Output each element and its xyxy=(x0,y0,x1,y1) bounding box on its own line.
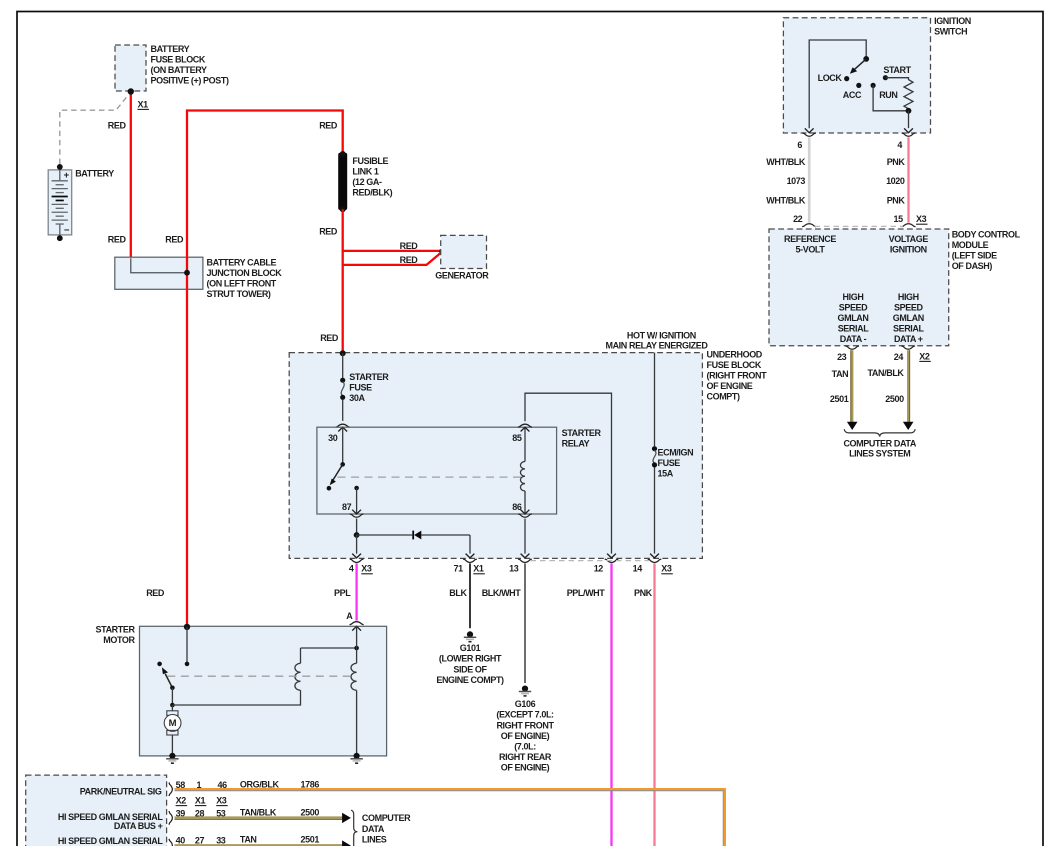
fuse block pin 71 arrow xyxy=(466,554,475,558)
BCM pin 15 connector cup xyxy=(902,224,916,227)
svg-text:12: 12 xyxy=(594,564,604,574)
svg-text:HIGH: HIGH xyxy=(898,292,919,302)
relay pin 86 arrow xyxy=(521,510,530,514)
fuse block pin 14 connector cup xyxy=(648,559,662,562)
svg-text:PNK: PNK xyxy=(887,195,906,205)
wire PPL pin 4 to starter motor A xyxy=(355,563,357,620)
svg-text:LINK 1: LINK 1 xyxy=(352,166,378,176)
wire BLK/WHT pin 13 to G106 xyxy=(524,563,526,683)
node X1 terminal dot on battery fuse block xyxy=(128,88,134,94)
svg-text:ACC: ACC xyxy=(843,90,862,100)
wire TAN hi speed GMLAN data bus - xyxy=(175,844,343,846)
svg-text:1786: 1786 xyxy=(301,779,320,789)
svg-text:14: 14 xyxy=(633,564,643,574)
svg-text:HOT W/ IGNITION: HOT W/ IGNITION xyxy=(627,331,696,341)
junction block internal node dot xyxy=(184,270,190,276)
svg-text:PNK: PNK xyxy=(634,588,653,598)
svg-text:ENGINE COMPT): ENGINE COMPT) xyxy=(436,675,504,685)
starter motor connector A cup xyxy=(350,622,364,625)
svg-text:1020: 1020 xyxy=(886,176,905,186)
svg-text:WHT/BLK: WHT/BLK xyxy=(766,195,806,205)
fuse block pin 13 arrow xyxy=(521,554,530,558)
svg-text:DATA: DATA xyxy=(362,824,385,834)
wire PNK pin 14 down off page xyxy=(653,563,655,846)
relay switch common wire xyxy=(342,427,344,464)
ground G101 xyxy=(467,631,473,637)
PCM pin 58 connector cup xyxy=(169,783,172,797)
fusible link top dot xyxy=(340,151,346,157)
svg-text:GENERATOR: GENERATOR xyxy=(435,270,489,280)
svg-text:RED: RED xyxy=(165,235,184,245)
battery negative terminal dot xyxy=(57,235,63,241)
svg-text:RED: RED xyxy=(319,120,338,130)
wire RED branch to generator (lower) xyxy=(343,252,442,265)
BCM top connector group dashed line xyxy=(815,225,904,227)
TAN/BLK bus arrowhead xyxy=(342,813,351,823)
BCM pin 24 connector cup xyxy=(901,346,915,349)
relay switch arm (open, with arrow) xyxy=(333,464,343,480)
starter solenoid arm pivot dot xyxy=(170,686,175,691)
svg-text:COMPUTER: COMPUTER xyxy=(362,813,411,823)
starter motor ground (right) xyxy=(354,753,360,759)
svg-text:GMLAN: GMLAN xyxy=(893,313,924,323)
svg-text:SWITCH: SWITCH xyxy=(934,27,967,37)
wire hot feed to ECM/IGN fuse xyxy=(654,353,656,447)
svg-text:X3: X3 xyxy=(661,564,672,574)
ground G106 xyxy=(522,686,528,692)
svg-text:MOTOR: MOTOR xyxy=(103,635,135,645)
ignition START contact dot xyxy=(883,75,888,80)
relay pin 85 connector cup xyxy=(518,424,532,427)
battery fuse block (dashed box) xyxy=(115,45,146,91)
wire node to diode to pin 71 drop xyxy=(357,534,413,536)
ignition pin 4 connector cup xyxy=(902,133,916,136)
fuse block pin 12 arrow xyxy=(607,554,616,558)
ignition RUN contact dot xyxy=(871,83,876,88)
svg-text:RED: RED xyxy=(108,235,127,245)
relay pin 85 arrow xyxy=(521,427,530,431)
wire BLK pin 71 to G101 xyxy=(469,563,471,628)
svg-text:33: 33 xyxy=(216,835,226,845)
svg-text:RIGHT FRONT: RIGHT FRONT xyxy=(496,720,554,730)
svg-text:(LOWER RIGHT: (LOWER RIGHT xyxy=(439,654,502,664)
ignition pin 4 arrow xyxy=(904,128,913,132)
relay pin 87 arrow xyxy=(352,510,361,514)
svg-text:WHT/BLK: WHT/BLK xyxy=(766,157,806,167)
relay switch pivot dot xyxy=(340,462,345,467)
svg-text:13: 13 xyxy=(509,564,519,574)
svg-text:RELAY: RELAY xyxy=(562,438,590,448)
svg-text:(RIGHT FRONT: (RIGHT FRONT xyxy=(707,371,768,381)
wire motor node to pull-in winding xyxy=(172,690,300,705)
svg-text:24: 24 xyxy=(894,352,904,362)
node dot diode branch xyxy=(354,532,360,538)
svg-text:TAN: TAN xyxy=(832,369,849,379)
battery B1 body xyxy=(48,170,71,235)
node dot red feed at fuse block top edge xyxy=(340,350,346,356)
svg-text:27: 27 xyxy=(195,835,205,845)
svg-text:STARTER: STARTER xyxy=(562,428,602,438)
svg-text:REFERENCE: REFERENCE xyxy=(784,234,836,244)
svg-text:−: − xyxy=(64,225,70,236)
starter relay box xyxy=(317,427,557,514)
svg-text:RED/BLK): RED/BLK) xyxy=(352,187,392,197)
svg-text:TAN/BLK: TAN/BLK xyxy=(240,807,277,817)
svg-text:RED: RED xyxy=(400,255,419,265)
svg-text:RED: RED xyxy=(146,588,165,598)
svg-text:OF ENGINE: OF ENGINE xyxy=(707,381,753,391)
ECM/IGN fuse 15A element xyxy=(652,446,657,451)
ignition switch (dashed box) xyxy=(783,18,930,133)
svg-text:ECM/IGN: ECM/IGN xyxy=(658,448,694,458)
starter solenoid switch arm (with arrow) xyxy=(165,674,172,688)
svg-text:2500: 2500 xyxy=(301,807,320,817)
svg-text:X3: X3 xyxy=(361,564,372,574)
svg-text:ORG/BLK: ORG/BLK xyxy=(240,779,280,789)
fuse block pin 71 connector cup xyxy=(463,559,477,562)
starter motor box xyxy=(140,626,387,756)
relay switch contact dot 87 xyxy=(354,486,359,491)
svg-text:BATTERY: BATTERY xyxy=(75,169,114,179)
svg-text:SERIAL: SERIAL xyxy=(893,323,925,333)
svg-text:22: 22 xyxy=(793,214,803,224)
svg-text:(LEFT SIDE: (LEFT SIDE xyxy=(952,251,997,261)
wire pull-in winding to A terminal wire xyxy=(301,647,357,649)
svg-text:(ON LEFT FRONT: (ON LEFT FRONT xyxy=(207,279,277,289)
svg-text:4: 4 xyxy=(349,564,354,574)
svg-text:DATA +: DATA + xyxy=(894,334,923,344)
svg-text:X3: X3 xyxy=(216,796,227,806)
svg-text:COMPUTER DATA: COMPUTER DATA xyxy=(843,438,916,448)
svg-text:LINES: LINES xyxy=(362,835,387,845)
svg-text:HI SPEED GMLAN SERIAL: HI SPEED GMLAN SERIAL xyxy=(58,836,164,846)
svg-text:JUNCTION BLOCK: JUNCTION BLOCK xyxy=(207,268,283,278)
svg-text:86: 86 xyxy=(512,502,522,512)
svg-text:RUN: RUN xyxy=(879,90,897,100)
svg-text:+: + xyxy=(64,170,70,181)
svg-text:(EXCEPT 7.0L:: (EXCEPT 7.0L: xyxy=(496,710,554,720)
wire WHT/BLK ignition pin 6 to BCM pin 22 xyxy=(808,137,811,222)
wire node down to pin 4 xyxy=(356,535,358,554)
TAN/BLK wire arrowhead xyxy=(903,422,914,430)
svg-text:PPL: PPL xyxy=(334,588,351,598)
svg-text:FUSE: FUSE xyxy=(349,383,372,393)
starter hold-in winding coil xyxy=(351,663,357,690)
PCM pin 40 connector cup xyxy=(169,839,172,846)
svg-text:STARTER: STARTER xyxy=(96,625,136,635)
wire RED fusible link to underhood fuse block xyxy=(342,209,344,352)
svg-text:IGNITION: IGNITION xyxy=(934,16,971,26)
svg-text:SIDE OF: SIDE OF xyxy=(453,664,487,674)
svg-text:15A: 15A xyxy=(658,469,674,479)
ignition switch feed dot xyxy=(863,56,869,62)
svg-text:RED: RED xyxy=(319,226,338,236)
ignition pin 6 connector cup xyxy=(802,133,816,136)
svg-text:30A: 30A xyxy=(349,393,365,403)
wire starter fuse to relay pin 30 xyxy=(342,400,344,421)
battery cell plates xyxy=(52,180,68,182)
svg-text:LOCK: LOCK xyxy=(818,73,843,83)
svg-text:X2: X2 xyxy=(919,351,930,361)
svg-text:(7.0L:: (7.0L: xyxy=(514,742,536,752)
svg-text:BLK/WHT: BLK/WHT xyxy=(482,588,522,598)
connector group dashed line pins 13-12-14 xyxy=(531,560,650,562)
ignition resistor bottom dot xyxy=(906,108,912,114)
svg-text:RED: RED xyxy=(108,120,127,130)
wire TAN/BLK hi speed GMLAN data bus + xyxy=(175,816,343,818)
svg-text:TAN: TAN xyxy=(240,834,257,844)
svg-text:RIGHT REAR: RIGHT REAR xyxy=(499,752,552,762)
fuse block pin 4 arrow xyxy=(352,554,361,558)
svg-text:(12 GA-: (12 GA- xyxy=(352,177,382,187)
svg-text:COMPT): COMPT) xyxy=(707,392,740,402)
wire ORG/BLK park/neutral signal xyxy=(175,789,725,846)
svg-text:A: A xyxy=(346,611,353,621)
wire RED junction block to fusible link (up and across) xyxy=(187,111,343,273)
wire A terminal down through hold-in winding to ground xyxy=(356,626,358,663)
wire TAN BCM 23 to data lines xyxy=(851,350,853,422)
wire relay 86 down to pin 13 xyxy=(524,519,526,554)
svg-text:BATTERY CABLE: BATTERY CABLE xyxy=(207,258,277,268)
starter fuse 30A element xyxy=(342,353,344,378)
wire resistor node down to pin 4 xyxy=(908,111,910,128)
svg-text:VOLTAGE: VOLTAGE xyxy=(889,234,929,244)
relay pin 86 connector cup xyxy=(518,514,532,517)
starter solenoid fixed contact dot xyxy=(157,662,162,667)
TAN wire arrowhead xyxy=(847,422,858,430)
wire PPL/WHT pin 12 down off page xyxy=(610,563,612,846)
svg-text:MODULE: MODULE xyxy=(952,240,989,250)
starter motor dashed actuation link xyxy=(167,675,350,677)
svg-text:M: M xyxy=(169,718,177,729)
junction block internal bus xyxy=(131,258,187,273)
generator terminal dot xyxy=(439,248,445,254)
starter motor A arrow xyxy=(352,626,361,630)
svg-text:STARTER: STARTER xyxy=(349,372,389,382)
svg-text:2501: 2501 xyxy=(301,834,320,844)
fusible link 1 element xyxy=(338,153,347,210)
svg-text:SPEED: SPEED xyxy=(839,302,868,312)
svg-text:G101: G101 xyxy=(460,643,481,653)
starter motor feed stub dot xyxy=(185,662,190,667)
ignition ACC contact dot xyxy=(856,83,861,88)
svg-text:DATA -: DATA - xyxy=(840,334,867,344)
svg-text:UNDERHOOD: UNDERHOOD xyxy=(707,350,763,360)
svg-text:71: 71 xyxy=(453,564,463,574)
svg-text:RED: RED xyxy=(320,333,339,343)
ignition switch feed wire xyxy=(809,40,866,128)
generator (dashed box) xyxy=(441,235,487,268)
wire RED branch to generator (upper) xyxy=(343,250,442,252)
svg-text:X3: X3 xyxy=(916,214,927,224)
relay pin 87 connector cup xyxy=(350,514,364,517)
starter pull-in winding coil xyxy=(295,663,301,690)
svg-text:SERIAL: SERIAL xyxy=(838,323,870,333)
svg-text:HIGH: HIGH xyxy=(843,292,864,302)
svg-text:PNK: PNK xyxy=(887,157,906,167)
svg-text:2501: 2501 xyxy=(830,394,849,404)
computer data lines brace (bottom) xyxy=(351,810,357,846)
svg-text:BATTERY: BATTERY xyxy=(151,44,190,54)
PCM pin 39 connector cup xyxy=(169,811,172,825)
starter motor ground (left) xyxy=(169,753,175,759)
svg-text:OF DASH): OF DASH) xyxy=(952,261,993,271)
svg-text:FUSE BLOCK: FUSE BLOCK xyxy=(707,360,762,370)
svg-text:30: 30 xyxy=(328,433,338,443)
svg-text:85: 85 xyxy=(512,433,522,443)
svg-text:FUSE: FUSE xyxy=(658,458,681,468)
starter motor battery terminal dot xyxy=(184,624,190,630)
fuse block pin 13 connector cup xyxy=(518,559,532,562)
svg-text:2500: 2500 xyxy=(885,394,904,404)
svg-text:X1: X1 xyxy=(195,796,206,806)
ignition switch wiper arm (with arrow) xyxy=(854,59,866,70)
svg-text:6: 6 xyxy=(797,140,802,150)
relay switch contact dot 87a side xyxy=(327,486,332,491)
svg-text:SPEED: SPEED xyxy=(894,302,923,312)
svg-text:GMLAN: GMLAN xyxy=(838,313,869,323)
fuse block pin 12 connector cup xyxy=(605,559,619,562)
wire motor M to case ground xyxy=(171,735,173,756)
svg-text:POSITIVE (+) POST): POSITIVE (+) POST) xyxy=(151,75,229,85)
svg-text:1073: 1073 xyxy=(787,176,806,186)
node dot on A wire xyxy=(354,646,359,651)
diode CR1 xyxy=(412,531,414,540)
wire relay 85 over to pin 12 xyxy=(525,393,612,553)
wire RED junction block down to starter motor xyxy=(186,273,188,627)
body control module (dashed box) xyxy=(769,229,949,346)
svg-text:4: 4 xyxy=(897,140,902,150)
svg-text:BODY CONTROL: BODY CONTROL xyxy=(952,230,1021,240)
wire motor node to motor M xyxy=(171,705,173,711)
svg-text:MAIN RELAY ENERGIZED: MAIN RELAY ENERGIZED xyxy=(605,340,708,350)
svg-text:STRUT TOWER): STRUT TOWER) xyxy=(207,289,271,299)
svg-text:X1: X1 xyxy=(473,564,484,574)
svg-text:23: 23 xyxy=(837,352,847,362)
svg-text:87: 87 xyxy=(342,502,352,512)
relay actuation dashed link xyxy=(338,476,522,478)
svg-text:X1: X1 xyxy=(138,99,149,109)
svg-text:IGNITION: IGNITION xyxy=(890,244,927,254)
motor node dot xyxy=(170,703,175,708)
svg-text:LINES SYSTEM: LINES SYSTEM xyxy=(849,448,910,458)
wire (dashed) battery positive to battery fuse block xyxy=(60,95,129,164)
svg-text:PPL/WHT: PPL/WHT xyxy=(567,588,606,598)
relay coil (pin 85 to 86) xyxy=(524,427,526,461)
starter motor feed stub xyxy=(186,627,188,664)
svg-text:FUSIBLE: FUSIBLE xyxy=(352,156,388,166)
svg-text:DATA BUS +: DATA BUS + xyxy=(114,821,163,831)
svg-text:START: START xyxy=(883,65,911,75)
motor M symbol xyxy=(167,711,178,716)
fusible link bottom dot xyxy=(340,206,346,212)
svg-text:FUSE BLOCK: FUSE BLOCK xyxy=(151,54,206,64)
battery internal terminal stems xyxy=(59,167,61,181)
svg-text:OF ENGINE): OF ENGINE) xyxy=(501,763,550,773)
svg-text:G106: G106 xyxy=(515,699,536,709)
battery cable junction block xyxy=(115,257,203,289)
wire solenoid arm to motor node xyxy=(171,688,173,705)
wire PNK ignition pin 4 to BCM pin 15 xyxy=(907,137,909,222)
svg-text:TAN/BLK: TAN/BLK xyxy=(868,368,905,378)
wire RED from battery fuse block X1 to battery cable junction block xyxy=(130,92,132,258)
svg-text:X2: X2 xyxy=(176,796,187,806)
wire relay 87 contact down to pin 87 xyxy=(356,488,358,514)
ignition pin 6 arrow xyxy=(805,128,814,132)
svg-text:(ON BATTERY: (ON BATTERY xyxy=(151,65,207,75)
ignition resistor R (START to RUN) xyxy=(885,78,913,111)
computer data lines brace xyxy=(844,429,915,436)
svg-text:5-VOLT: 5-VOLT xyxy=(796,244,826,254)
fuse block pin 4 connector cup xyxy=(350,559,364,562)
underhood fuse block (dashed box) xyxy=(289,353,702,559)
svg-text:BLK: BLK xyxy=(449,588,467,598)
svg-text:RED: RED xyxy=(400,241,419,251)
battery positive terminal dot xyxy=(57,164,63,170)
relay pin 30 connector cup xyxy=(336,424,350,427)
BCM pin 23 connector cup xyxy=(845,346,859,349)
svg-text:OF ENGINE): OF ENGINE) xyxy=(501,731,550,741)
svg-text:PARK/NEUTRAL SIG: PARK/NEUTRAL SIG xyxy=(80,787,162,797)
relay pin 30 arrow xyxy=(338,427,347,431)
TAN bus arrowhead xyxy=(342,840,351,846)
ignition LOCK contact dot xyxy=(844,76,849,81)
svg-text:40: 40 xyxy=(176,835,186,845)
wire TAN/BLK BCM 24 to data lines xyxy=(907,350,909,422)
wire ECM/IGN fuse down to pin 14 xyxy=(654,467,656,553)
svg-text:15: 15 xyxy=(893,214,903,224)
powertrain control module (dashed box, cut off) xyxy=(26,775,167,846)
fuse block pin 14 arrow xyxy=(650,554,659,558)
BCM pin 22 connector cup xyxy=(802,224,816,227)
wire relay 87 to node xyxy=(356,519,358,535)
